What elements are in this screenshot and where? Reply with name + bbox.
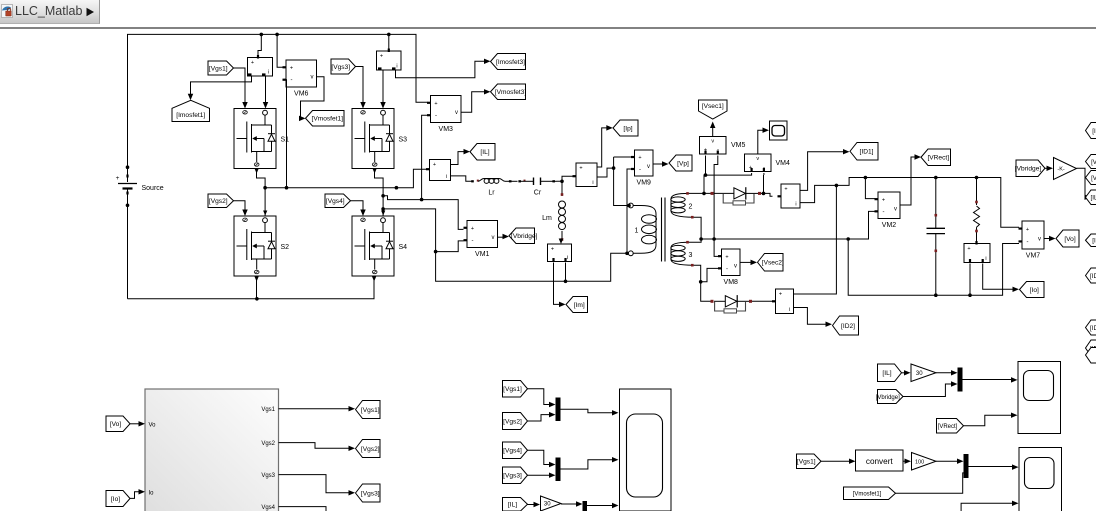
wire: Ip meas to transformer primary bbox=[597, 168, 614, 177]
scope 1 (IL/Vbridge/VRect) bbox=[1018, 362, 1061, 434]
svg-text:[Imosfet3]: [Imosfet3] bbox=[496, 59, 525, 66]
wire: Im meas to primary return bbox=[565, 263, 567, 282]
svg-text:+: + bbox=[251, 60, 254, 66]
voltage measurement VM7 (output) bbox=[1022, 221, 1044, 249]
wire: [Vo] to subsystem bbox=[130, 423, 141, 425]
svg-text:v: v bbox=[311, 75, 314, 81]
svg-text:+: + bbox=[380, 54, 383, 60]
from tag [Vgs3] bbox=[331, 59, 356, 74]
from tag [Vgs1] (scope2 group) bbox=[797, 454, 822, 469]
wire: S4 source to DC- rail bbox=[373, 276, 375, 282]
wire: mux2 to scope bbox=[561, 460, 614, 469]
wire: mux1 to scope bbox=[561, 409, 614, 413]
svg-text:+: + bbox=[779, 292, 782, 298]
wire: [Vgs4] to mux2 bbox=[528, 450, 552, 464]
svg-text:Vo: Vo bbox=[149, 423, 157, 429]
svg-text:-: - bbox=[1027, 239, 1029, 245]
wire: [IL] to gain 30 bbox=[902, 372, 907, 374]
svg-text:[Vgs4]: [Vgs4] bbox=[326, 198, 345, 205]
svg-text:[Vgs2]: [Vgs2] bbox=[503, 418, 522, 425]
from tag [VRect] (scope1 group) bbox=[937, 419, 964, 434]
svg-text:-: - bbox=[435, 113, 437, 119]
wire: gain 30 to mux3 bbox=[561, 503, 578, 505]
MOSFET S1 bbox=[234, 109, 276, 169]
junction dots on DC+ bus bbox=[260, 33, 264, 37]
svg-text:[Vgs1]: [Vgs1] bbox=[361, 407, 380, 414]
wire: VM4 + to winding2 top node bbox=[706, 173, 752, 175]
wire: top DC+ bus from Source to bridge legs bbox=[128, 34, 428, 182]
svg-text:+: + bbox=[551, 247, 554, 253]
goto tag [IL] bbox=[470, 144, 495, 161]
svg-text:VM4: VM4 bbox=[776, 160, 791, 167]
wire: node B branch to VM1 + bbox=[383, 196, 463, 230]
transformer winding 2 (secondary upper) bbox=[671, 192, 694, 218]
wire: ID1 meas to output + rail bbox=[800, 178, 1019, 228]
svg-text:VM5: VM5 bbox=[731, 142, 746, 149]
current measurement (ID1) bbox=[778, 184, 801, 208]
svg-text:[Vmosfet3]: [Vmosfet3] bbox=[495, 89, 527, 96]
wire: VM1 v to [Vbridge] bbox=[498, 236, 505, 238]
svg-text:[VRect]: [VRect] bbox=[927, 155, 949, 162]
svg-text:+: + bbox=[638, 155, 641, 161]
current measurement (leg1, Imosfet1) bbox=[248, 34, 273, 76]
mux 2 (Vgs4/Vgs3) bbox=[556, 458, 561, 482]
svg-text:1: 1 bbox=[635, 228, 639, 235]
svg-text:S2: S2 bbox=[281, 244, 290, 251]
svg-text:[Ip]: [Ip] bbox=[623, 125, 632, 132]
svg-text:[Vgs2]: [Vgs2] bbox=[209, 198, 228, 205]
svg-text:i: i bbox=[567, 255, 568, 261]
svg-text:[Imosfet1]: [Imosfet1] bbox=[176, 112, 205, 119]
diode D1 with RC snubber bbox=[711, 187, 762, 205]
wire: convert to gain 100 bbox=[903, 460, 907, 462]
svg-text:convert: convert bbox=[866, 457, 894, 466]
svg-text:v: v bbox=[734, 263, 737, 269]
svg-text:[Vmosfet1]: [Vmosfet1] bbox=[311, 116, 343, 123]
node B junctions bbox=[381, 194, 385, 198]
wire: lower input to scope2 bbox=[961, 503, 1014, 511]
current measurement (leg2, Imosfet3) bbox=[377, 34, 402, 70]
wire: ID2 i-output to [ID2] bbox=[794, 308, 828, 325]
goto tag [Vmosfet1] bbox=[306, 111, 345, 127]
svg-text:i: i bbox=[268, 70, 269, 76]
partially visible goto tag top right of scope1 bbox=[1086, 348, 1096, 364]
wire: VM3 v output to [Vmosfet3] bbox=[461, 92, 486, 113]
voltage measurement VM8 (winding 3) bbox=[722, 249, 741, 276]
wire: winding2 bottom to center tap bbox=[694, 217, 702, 239]
svg-text:[Vgs3]: [Vgs3] bbox=[361, 490, 380, 497]
mux 1 (Vgs1/Vgs2) bbox=[556, 398, 561, 422]
wire: ID1 i-output to [ID1] bbox=[800, 152, 845, 191]
from tag [IL] (scope1 group) bbox=[878, 364, 902, 382]
voltage measurement VM6 bbox=[286, 60, 317, 87]
from tag [Vgs4] bbox=[325, 194, 351, 208]
scope 2 (Vgs1/Vmosfet1) bbox=[1019, 448, 1062, 516]
svg-text:i: i bbox=[795, 202, 796, 208]
wire: IL meas to Lr bbox=[451, 176, 473, 181]
svg-text:+: + bbox=[882, 197, 885, 203]
svg-text:[IL]: [IL] bbox=[508, 502, 517, 509]
current measurement (Ip, primary) bbox=[573, 163, 598, 187]
from tag [Io] (controller input) bbox=[106, 491, 130, 507]
svg-text:v: v bbox=[894, 206, 897, 212]
wire: Vgs3 output bbox=[279, 475, 351, 493]
transformer T1 winding 1 (primary) bbox=[628, 203, 656, 256]
svg-text:Source: Source bbox=[142, 185, 164, 192]
wire: tank node to Ip measurement bbox=[557, 176, 575, 181]
svg-text:30: 30 bbox=[544, 502, 551, 508]
wire: winding3 top to center tap bbox=[689, 239, 701, 242]
gain -K- bbox=[1054, 158, 1077, 180]
wire: D1 cathode junction bbox=[761, 193, 773, 196]
wire: node A to VM6 - bbox=[283, 80, 287, 188]
svg-text:VM7: VM7 bbox=[1026, 252, 1041, 259]
wire: [Vgs4] to S4 gate bbox=[351, 201, 364, 212]
svg-text:VM2: VM2 bbox=[882, 222, 897, 229]
controller subsystem block bbox=[145, 389, 279, 516]
MOSFET S4 bbox=[352, 216, 394, 276]
inductor Lm (magnetizing) bbox=[542, 181, 565, 241]
svg-text:[Vgs3]: [Vgs3] bbox=[503, 473, 522, 480]
svg-text:[Vo]: [Vo] bbox=[110, 421, 122, 428]
wire: VM7 v to [Vo] bbox=[1044, 238, 1051, 240]
wire: winding3 bottom down to rectifier D2 bbox=[694, 265, 711, 301]
scope (gate signals) bbox=[620, 389, 672, 511]
wire: leg1 meas to S1 drain bbox=[265, 76, 267, 105]
from tag [IL] (scope group) bbox=[503, 498, 528, 512]
goto tag [Vbridge] bbox=[509, 228, 535, 244]
wire: [Vmosfet1] to mux bbox=[896, 473, 964, 493]
wire: VM6 v output to [Vmosfet1] bbox=[301, 77, 325, 119]
wire: gain 100 to mux bbox=[936, 460, 959, 462]
wire: [Vgs3] to S3 gate bbox=[356, 67, 364, 105]
wire: [Vgs3] to mux2 bbox=[528, 474, 552, 476]
wire: VM1 - tap bbox=[436, 241, 464, 252]
from tag [Vgs1] bbox=[208, 61, 234, 75]
svg-text:Lr: Lr bbox=[488, 190, 495, 197]
svg-text:-: - bbox=[472, 238, 474, 244]
wire: S2 source to DC- rail bbox=[256, 276, 258, 299]
from tag [Vgs1] (scope group) bbox=[503, 381, 528, 398]
svg-text:+: + bbox=[1026, 227, 1029, 233]
wire: VM5 v up to [Vsec1] bbox=[712, 127, 714, 137]
svg-text:[Vbridge]: [Vbridge] bbox=[511, 233, 538, 240]
from tag [Vgs4] (scope group) bbox=[503, 442, 528, 459]
wire: [Io] to subsystem bbox=[130, 492, 141, 499]
svg-text:VM1: VM1 bbox=[475, 251, 490, 258]
from tag [Vgs3] (scope group) bbox=[503, 467, 528, 484]
wire: D1 junction up to VM4 - bbox=[763, 175, 765, 193]
wire: VM9 + tap from primary top node bbox=[614, 156, 632, 158]
current measurement (IL, tank input) bbox=[426, 160, 451, 181]
svg-text:v: v bbox=[711, 139, 714, 145]
svg-text:VM3: VM3 bbox=[439, 126, 454, 133]
wire: center tap to output - (VM2 -) bbox=[701, 211, 878, 239]
svg-text:[Im]: [Im] bbox=[574, 302, 585, 309]
node A junction bbox=[263, 186, 267, 190]
svg-text:[I: [I bbox=[1092, 238, 1096, 245]
svg-text:S3: S3 bbox=[399, 137, 408, 144]
from tag [Vmosfet1] (scope2 group) bbox=[844, 487, 896, 500]
svg-text:[Vo]: [Vo] bbox=[1064, 236, 1076, 243]
wire: node B lower branch to VM1 - and primary return bbox=[383, 209, 628, 281]
svg-text:VM8: VM8 bbox=[724, 279, 739, 286]
wire: bus to VM6 + bbox=[277, 34, 283, 67]
svg-text:2: 2 bbox=[689, 204, 693, 211]
wire: Io meas to bottom rail bbox=[969, 264, 971, 296]
wire: leg2 meas i-output to [Imosfet3] bbox=[396, 61, 487, 77]
wire: Ip meas i-output to [Ip] bbox=[597, 128, 608, 167]
wire: node A horizontal bbox=[265, 169, 426, 188]
svg-text:[Vgs4]: [Vgs4] bbox=[503, 448, 522, 455]
wire: VM4 v up to scope icon bbox=[758, 130, 765, 154]
data type convert block bbox=[856, 450, 904, 471]
wire: [Vgs1] to mux1 bbox=[528, 389, 552, 405]
goto tag [Vsec1] bbox=[699, 100, 728, 119]
svg-text:i: i bbox=[789, 307, 790, 313]
current measurement (Io) bbox=[964, 241, 990, 263]
wire: Vgs2 output bbox=[279, 443, 351, 449]
wire: rail to VM2 + bbox=[865, 178, 875, 199]
svg-text:+: + bbox=[471, 226, 474, 232]
wire: DC- bottom rail bbox=[128, 282, 375, 299]
goto tag [Io] bbox=[1020, 282, 1045, 298]
svg-text:i: i bbox=[985, 256, 986, 262]
svg-text:+: + bbox=[116, 175, 120, 182]
svg-text:+: + bbox=[290, 65, 293, 71]
svg-text:Cr: Cr bbox=[534, 190, 542, 197]
voltage measurement VM5 (output on top) bbox=[700, 137, 746, 155]
svg-text:[V: [V bbox=[1091, 159, 1096, 166]
svg-text:[Vbridge]: [Vbridge] bbox=[1015, 166, 1042, 173]
wire: center tap down to output bottom rail bbox=[848, 239, 1019, 295]
svg-text:S1: S1 bbox=[281, 137, 290, 144]
svg-text:VM9: VM9 bbox=[637, 179, 652, 186]
wire: Io meas i-output to [Io] bbox=[983, 264, 1015, 290]
gain 30 (IL scaling, scope group) bbox=[528, 504, 536, 506]
goto tag [VRect] bbox=[921, 149, 951, 166]
from tag [Vgs2] (scope group) bbox=[503, 413, 528, 430]
svg-text:[Vgs1]: [Vgs1] bbox=[209, 65, 228, 72]
goto tag [Ip] bbox=[613, 120, 638, 136]
svg-text:-K-: -K- bbox=[1057, 167, 1065, 173]
svg-text:30: 30 bbox=[916, 371, 923, 377]
capacitor C (output filter) bbox=[927, 178, 946, 296]
wire: mux to scope1 bbox=[963, 379, 1014, 381]
wire: [Vgs1] to convert bbox=[821, 460, 851, 462]
svg-text:Vgs1: Vgs1 bbox=[261, 407, 275, 413]
current measurement (Im) bbox=[548, 239, 572, 262]
goto tag [Vsec2] bbox=[758, 254, 784, 272]
goto tag [Imosfet1] bbox=[172, 100, 210, 121]
svg-text:[ID2]: [ID2] bbox=[841, 323, 855, 330]
svg-text:[IL]: [IL] bbox=[882, 370, 891, 377]
svg-text:+: + bbox=[434, 101, 437, 107]
svg-text:-: - bbox=[726, 266, 728, 272]
wire: [Vbridge] to gain -K- bbox=[1045, 167, 1049, 169]
svg-text:[Vp]: [Vp] bbox=[677, 160, 689, 167]
goto tag [ID1] bbox=[850, 143, 878, 161]
inductor Lr (series resonant) bbox=[471, 179, 517, 197]
wire: [Vgs2] to mux1 bbox=[528, 415, 552, 421]
partially visible goto tags at right edge bbox=[1086, 123, 1096, 139]
svg-text:[Vmosfet1]: [Vmosfet1] bbox=[853, 492, 882, 498]
wire: [VRect] to scope1 bbox=[964, 415, 1014, 426]
transformer core bbox=[661, 198, 663, 262]
DC voltage source 'Source' bbox=[116, 165, 164, 298]
svg-text:[IL]: [IL] bbox=[480, 149, 489, 156]
svg-text:i: i bbox=[592, 180, 593, 186]
wire: winding2 top to rectifier D1 bbox=[689, 192, 711, 194]
wire: VM2 v to [VRect] bbox=[900, 157, 917, 205]
scope (small display icon) bbox=[770, 121, 788, 140]
svg-text:Vgs4: Vgs4 bbox=[261, 505, 275, 511]
mux (scope2 group) bbox=[964, 454, 969, 478]
svg-text:+: + bbox=[725, 254, 728, 260]
diode D2 with RC snubber bbox=[711, 295, 753, 313]
svg-text:Io: Io bbox=[149, 491, 155, 497]
goto tag [Imosfet3] bbox=[491, 54, 526, 70]
svg-text:[Io]: [Io] bbox=[1030, 287, 1039, 294]
wire: Vgs4 output bbox=[279, 507, 327, 511]
svg-text:i: i bbox=[446, 174, 447, 180]
wire: VM8 - to winding3 bottom bbox=[701, 268, 719, 281]
current measurement (ID2) bbox=[772, 289, 794, 314]
voltage measurement VM9 (primary) bbox=[635, 150, 654, 176]
goto tag [Vgs2] (controller out) bbox=[356, 440, 381, 458]
goto tag [ID2] bbox=[833, 316, 859, 335]
svg-text:[Vsec1]: [Vsec1] bbox=[702, 103, 724, 110]
from tag [Vo] (controller input) bbox=[106, 416, 130, 432]
wire: D2 to ID2 measurement bbox=[752, 300, 773, 302]
svg-text:i: i bbox=[396, 64, 397, 70]
svg-text:100: 100 bbox=[915, 459, 924, 465]
goto tag [Vgs3] (controller out) bbox=[356, 484, 381, 502]
svg-text:[Io]: [Io] bbox=[111, 496, 120, 503]
wire: leg2 meas to S3 drain bbox=[382, 70, 384, 105]
svg-text:[ID: [ID bbox=[1090, 273, 1096, 280]
wire: mux to scope2 bbox=[969, 466, 1015, 468]
svg-text:v: v bbox=[1038, 236, 1041, 242]
wire: VM8 + to center tap bbox=[714, 239, 718, 256]
svg-text:3: 3 bbox=[689, 252, 693, 259]
wire: [Vgs2] to S2 gate bbox=[234, 201, 246, 212]
goto tag [Vp] bbox=[669, 155, 692, 171]
wire: leg1 meas i-output to [Imosfet1] bbox=[191, 76, 252, 96]
goto tag [Vo] bbox=[1056, 230, 1079, 247]
mux (scope1 group) bbox=[958, 368, 963, 392]
svg-text:-: - bbox=[291, 78, 293, 84]
wire: S3 source to node B to S4 drain bbox=[375, 169, 384, 216]
wire: node B branch up to VM3 - bbox=[422, 115, 428, 199]
svg-text:[Vgs1]: [Vgs1] bbox=[797, 459, 816, 466]
wire: VM8 v to [Vsec2] bbox=[740, 261, 753, 263]
svg-text:[V: [V bbox=[1091, 175, 1096, 182]
svg-text:v: v bbox=[492, 235, 495, 241]
svg-text:-: - bbox=[883, 209, 885, 215]
svg-text:[VRect]: [VRect] bbox=[938, 424, 958, 430]
svg-text:-: - bbox=[639, 167, 641, 173]
wire: VM4 - down to D1 cathode bbox=[763, 173, 765, 175]
transformer winding 3 (secondary lower) bbox=[671, 241, 694, 267]
voltage measurement VM2 (rectifier output) bbox=[878, 192, 900, 219]
svg-text:[Vsec2]: [Vsec2] bbox=[762, 260, 784, 267]
svg-text:[Vgs3]: [Vgs3] bbox=[331, 64, 350, 71]
svg-text:v: v bbox=[756, 156, 759, 162]
svg-text:+: + bbox=[784, 187, 787, 193]
wire: IL meas i-output to [IL] bbox=[451, 152, 466, 165]
svg-text:+: + bbox=[579, 166, 582, 172]
svg-text:+: + bbox=[967, 246, 970, 252]
svg-text:[I: [I bbox=[1092, 128, 1096, 135]
resistor R (load) bbox=[974, 178, 980, 244]
voltage measurement VM1 bbox=[467, 221, 498, 248]
svg-text:[ID1]: [ID1] bbox=[860, 149, 874, 156]
wire: VM9 v to [Vp] bbox=[653, 163, 664, 165]
model icon bbox=[1, 4, 13, 18]
MOSFET S3 bbox=[352, 109, 394, 169]
from tag [Vbridge] (to gain) bbox=[1016, 160, 1045, 177]
svg-text:[IL: [IL bbox=[1091, 195, 1096, 202]
wire: VM5 - down to center tap bbox=[714, 156, 718, 240]
svg-text:[Vgs1]: [Vgs1] bbox=[503, 386, 522, 393]
svg-text:v: v bbox=[455, 110, 458, 116]
goto tag [Vmosfet3] bbox=[491, 84, 526, 100]
svg-text:Vgs2: Vgs2 bbox=[261, 441, 275, 447]
wire: Im meas i-output to [Im] bbox=[554, 263, 562, 305]
wire: gain to mux bbox=[936, 372, 953, 374]
svg-text:S4: S4 bbox=[399, 244, 408, 251]
svg-text:Lm: Lm bbox=[542, 215, 552, 222]
voltage measurement VM3 bbox=[431, 96, 462, 123]
svg-text:[Vbridge]: [Vbridge] bbox=[876, 395, 900, 401]
svg-text:Vgs3: Vgs3 bbox=[261, 473, 275, 479]
mux 3 bbox=[583, 501, 588, 511]
wire: mux3 to scope bbox=[587, 505, 613, 507]
gain 100 (scope2 group) bbox=[912, 453, 937, 471]
from tag [Vbridge] (scope1 group) bbox=[878, 390, 904, 404]
gain 30 (scope1 group) bbox=[911, 364, 936, 382]
breadcrumb arrow bbox=[85, 7, 95, 17]
MOSFET S2 bbox=[234, 216, 276, 276]
capacitor Cr (series resonant) bbox=[518, 178, 556, 197]
wire: [Vbridge] to mux bbox=[903, 384, 953, 397]
wire: VM9 - to primary bottom bbox=[627, 169, 632, 253]
svg-text:VM6: VM6 bbox=[294, 90, 309, 97]
goto tag [Im] bbox=[566, 297, 588, 313]
svg-text:+: + bbox=[433, 162, 436, 168]
svg-text:[Vgs2]: [Vgs2] bbox=[361, 446, 380, 453]
wire: Vgs1 output bbox=[279, 408, 351, 410]
voltage measurement VM4 (across D1) bbox=[745, 154, 791, 172]
goto tag [Vgs1] (controller out) bbox=[356, 401, 381, 419]
wire: gain -K- output to edge tag bbox=[1077, 168, 1088, 197]
wire: S1 source to node A to S2 drain bbox=[257, 169, 266, 216]
from tag [Vgs2] bbox=[208, 194, 234, 208]
svg-text:v: v bbox=[647, 164, 650, 170]
wire: VM5 + down to winding2 top node bbox=[704, 156, 706, 194]
svg-text:[ID: [ID bbox=[1090, 325, 1096, 332]
wire: ID2 return up to output rail bbox=[794, 185, 837, 294]
wire: [Vgs1] to S1 gate bbox=[234, 68, 246, 104]
